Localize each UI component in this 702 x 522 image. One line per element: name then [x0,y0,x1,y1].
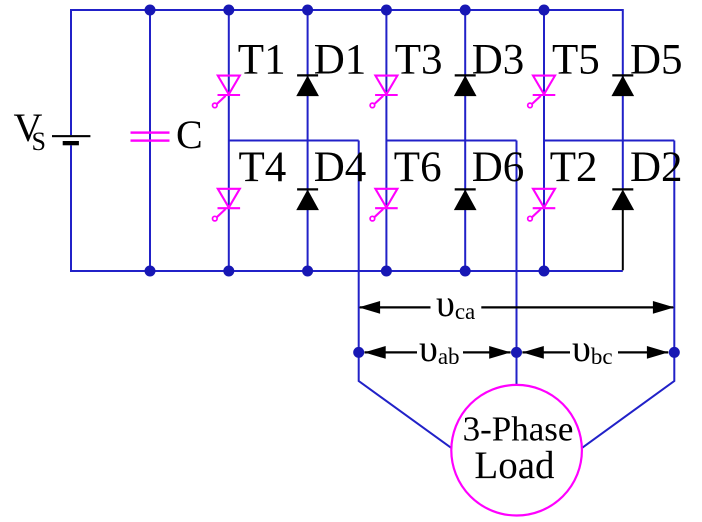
node c dot [669,347,680,358]
svg-text:D6: D6 [472,144,525,191]
svg-text:T5: T5 [552,37,600,84]
junction dot bottom rail x=544 [539,266,550,277]
diode D4 [297,189,318,209]
voltage arrow v_bc right head [647,346,668,359]
voltage arrow v_bc left line [522,351,570,353]
voltage arrow v_ca left head [359,301,380,314]
junction dot top rail x=544 [539,5,550,16]
wire: capacitor C branch [149,10,151,271]
svg-text:D2: D2 [630,144,683,191]
wire: D2 cathode lead (black) to bottom rail corner [622,209,624,270]
node a dot [353,347,364,358]
voltage arrow v_ab right line [463,351,511,353]
svg-text:T3: T3 [395,37,443,84]
diode D2 [612,189,633,209]
svg-text:D5: D5 [630,37,683,84]
wire: D3/D6 branch [464,10,466,271]
battery Vs negative plate [63,141,79,145]
junction dot top rail x=150 [145,5,156,16]
svg-text:D1: D1 [314,37,367,84]
diode D3 [455,75,476,95]
thyristor T3 [370,76,398,108]
wire: phase-a midpoint rail (leg 1) [229,140,359,142]
wire: phase-a output drop to load [359,141,453,449]
wire: T3/T6 branch [385,10,387,271]
voltage arrow v_bc left head [522,346,543,359]
voltage arrow v_ab left head [364,346,385,359]
battery Vs positive plate [52,135,90,137]
thyristor T5 [528,76,556,108]
wire: Vs bottom lead + bottom DC rail [71,145,623,271]
svg-text:D4: D4 [314,144,367,191]
wire: Vs top lead + top DC rail + D5/D2 right branch down to D2 anode [71,10,623,189]
capacitor C bottom plate [131,139,170,141]
diode D6 [455,189,476,209]
voltage arrow v_bc right line [618,351,668,353]
svg-text:T4: T4 [239,144,287,191]
capacitor C top plate [131,131,170,133]
svg-text:Load: Load [474,444,555,487]
3-phase load circle [451,385,582,516]
wire: phase-c output drop to load [581,141,675,449]
node b dot [511,347,522,358]
diode D5 [612,75,633,95]
wire: T1/T4 branch [228,10,230,271]
junction dot bottom rail x=228.8 [223,266,234,277]
thyristor T2 [528,189,556,221]
svg-text:D3: D3 [472,37,525,84]
wire: D1/D4 branch [307,10,309,271]
svg-text:T1: T1 [238,37,286,84]
svg-text:S: S [32,127,46,156]
svg-text:T6: T6 [394,144,442,191]
wire: phase-c midpoint rail (leg 3) [544,140,674,142]
thyristor T1 [213,76,241,108]
thyristor T6 [370,189,398,221]
voltage arrow v_ab right head [489,346,510,359]
junction dot bottom rail x=150 [145,266,156,277]
junction dot top rail x=307.6 [302,5,313,16]
junction dot bottom rail x=386.4 [381,266,392,277]
voltage arrow v_ca right head [653,301,674,314]
voltage arrow v_ca right line [481,306,673,308]
thyristor T4 [213,189,241,221]
wire: phase-b midpoint rail (leg 2) [386,140,516,142]
junction dot bottom rail x=465.2 [460,266,471,277]
wire: T5/T2 branch [543,10,545,271]
diode D1 [297,75,318,95]
junction dot top rail x=386.4 [381,5,392,16]
voltage arrow v_ab left line [365,351,418,353]
svg-text:T2: T2 [550,144,598,191]
svg-text:C: C [176,112,203,157]
junction dot top rail x=228.8 [223,5,234,16]
junction dot top rail x=465.2 [460,5,471,16]
wire: phase-b output drop to load [516,141,518,388]
voltage arrow v_ca left line [360,306,431,308]
junction dot bottom rail x=307.6 [302,266,313,277]
svg-text:3-Phase: 3-Phase [463,410,574,449]
